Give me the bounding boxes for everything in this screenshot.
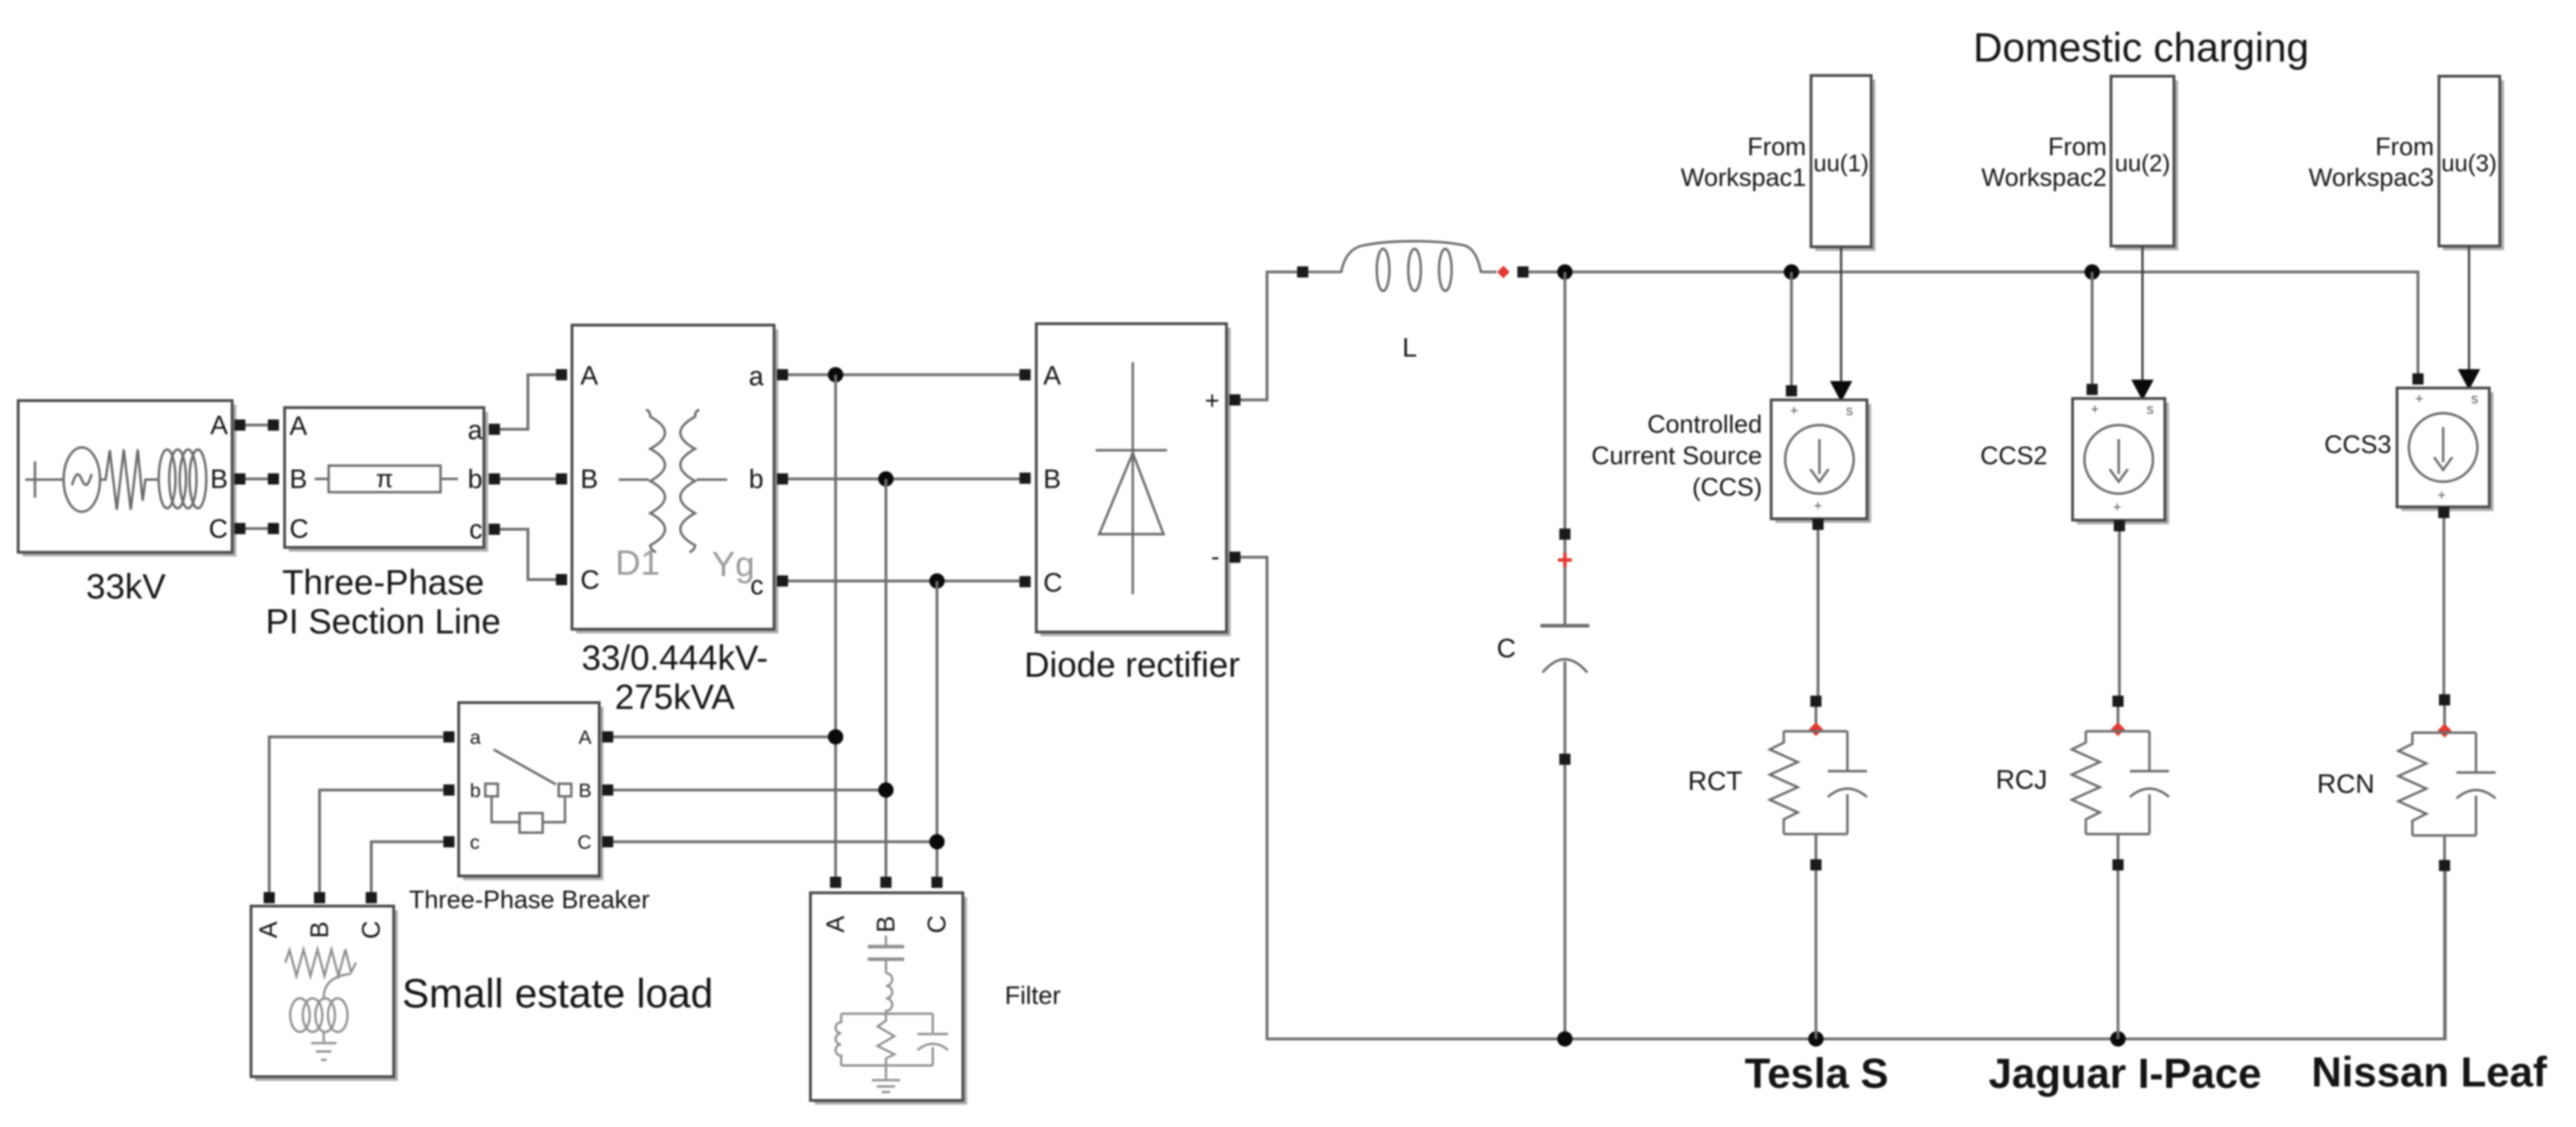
wire RCJ to ground bus <box>2117 870 2119 1039</box>
svg-text:Domestic charging: Domestic charging <box>1973 25 2309 71</box>
svg-text:C: C <box>209 515 228 544</box>
node junction a tap <box>828 367 843 382</box>
svg-text:C: C <box>922 915 951 933</box>
svg-text:B: B <box>210 465 228 494</box>
svg-text:Workspac1: Workspac1 <box>1681 163 1806 192</box>
port CCS3 plus input <box>2412 373 2424 385</box>
port RCT top <box>1810 696 1822 707</box>
node red marker after L <box>1497 266 1510 278</box>
svg-text:a: a <box>470 726 481 748</box>
wire breaker A output <box>613 735 836 738</box>
block Controlled Current Source CCS1 <box>1771 400 1871 523</box>
resistor-capacitor network RCT <box>1770 731 1867 859</box>
wire RCT to ground bus <box>1815 870 1817 1039</box>
wire DC plus bus <box>1529 272 2418 377</box>
block Filter <box>810 893 967 1105</box>
33kV icon resistor R <box>100 450 158 510</box>
svg-text:a: a <box>749 362 764 392</box>
svg-text:RCJ: RCJ <box>1996 766 2047 795</box>
resistor-capacitor network RCN <box>2398 733 2496 860</box>
ports transformer outputs a,b,c <box>777 369 788 587</box>
port capacitor C top <box>1559 529 1570 540</box>
svg-text:Three-Phase Breaker: Three-Phase Breaker <box>409 885 650 914</box>
label Controlled Current Source (CCS) <box>1591 410 1762 501</box>
svg-text:+: + <box>1790 403 1798 419</box>
arrowhead signal CCS1 <box>1830 381 1852 402</box>
filter icon ground <box>872 1065 900 1092</box>
port CCS3 minus output <box>2438 507 2449 518</box>
wire rectifier minus to ground bus <box>1240 557 2445 1039</box>
block From Workspace3 <box>2439 76 2504 250</box>
svg-text:+: + <box>2415 392 2424 407</box>
port inductor L right <box>1517 266 1529 278</box>
label 33/0.444kV-275kVA <box>582 638 768 717</box>
svg-text:uu(1): uu(1) <box>1813 150 1868 177</box>
port RCJ top <box>2112 696 2124 707</box>
resistor-capacitor network RCJ <box>2072 731 2169 859</box>
svg-text:B: B <box>578 780 592 801</box>
block Controlled Current Source CCS2 <box>2073 399 2169 524</box>
transformer winding primary <box>619 410 665 552</box>
33kV icon AC source circle <box>64 447 100 512</box>
svg-text:33/0.444kV-: 33/0.444kV- <box>582 638 768 677</box>
wire transformer c to rectifier C <box>788 580 1019 582</box>
arrowhead signal CCS3 <box>2458 369 2480 390</box>
svg-text:s: s <box>2147 402 2154 417</box>
block Small estate load (Three-Phase Series RLC Load) <box>251 906 398 1081</box>
inductor L coil <box>1308 241 1496 291</box>
wire signal From Workspace3 to CCS3 <box>2468 246 2470 369</box>
svg-text:Tesla S: Tesla S <box>1745 1050 1889 1097</box>
load icon inductor <box>290 998 348 1032</box>
node junction b tap <box>878 471 894 487</box>
label Three-Phase PI Section Line <box>266 563 501 641</box>
wire breaker a to load A <box>269 737 443 892</box>
node junction breaker A net <box>828 729 843 745</box>
source block 33kV (Three-Phase Source) <box>18 401 236 557</box>
svg-text:C: C <box>580 566 599 595</box>
svg-text:From: From <box>2048 132 2107 161</box>
label From Workspac3 <box>2309 132 2434 192</box>
load icon ground <box>311 1032 336 1060</box>
ports rectifier outputs plus,minus <box>1229 394 1240 563</box>
capacitor C symbol <box>1540 540 1589 754</box>
wire RCN port to network <box>2443 705 2446 733</box>
wire bus tap to CCS2 plus <box>2091 272 2094 387</box>
svg-text:B: B <box>1043 465 1061 494</box>
svg-text:C: C <box>1043 568 1062 598</box>
svg-text:c: c <box>750 571 764 601</box>
svg-text:s: s <box>1846 403 1853 419</box>
svg-text:b: b <box>468 465 482 494</box>
wire transformer a to rectifier A <box>788 373 1019 376</box>
port RCN bottom <box>2439 860 2450 871</box>
svg-text:PI Section Line: PI Section Line <box>266 602 501 641</box>
svg-text:+: + <box>2438 488 2446 503</box>
arrowhead signal CCS2 <box>2131 380 2154 401</box>
node red marker capacitor C top <box>1558 553 1572 567</box>
svg-text:B: B <box>305 921 334 938</box>
svg-text:CCS3: CCS3 <box>2324 430 2391 459</box>
svg-text:C: C <box>1497 634 1516 663</box>
svg-text:Yg: Yg <box>712 545 754 584</box>
port CCS1 plus input <box>1786 385 1797 396</box>
port RCT bottom <box>1810 859 1822 870</box>
wire PI a to transformer A <box>500 375 556 429</box>
port CCS2 plus input <box>2087 384 2098 395</box>
diode symbol inside rectifier <box>1096 362 1167 594</box>
wire RCN to ground bus corner <box>2443 871 2446 1039</box>
svg-text:Jaguar I-Pace: Jaguar I-Pace <box>1989 1050 2261 1097</box>
wire vertical net b to filter B <box>885 479 887 877</box>
svg-text:A: A <box>580 361 599 391</box>
wire 33kV A to PI A <box>245 424 268 426</box>
wire 33kV B to PI B <box>245 478 268 480</box>
svg-text:s: s <box>2471 392 2478 407</box>
ports transformer inputs A,B,C <box>556 369 567 585</box>
svg-text:From: From <box>1747 132 1806 161</box>
breaker switch symbol <box>485 749 571 833</box>
wire breaker B output <box>613 789 886 791</box>
wire 33kV C to PI C <box>245 527 268 530</box>
svg-text:A: A <box>578 726 592 748</box>
wire CCS2 to RCJ <box>2118 531 2121 696</box>
wire CCS1 to RCT <box>1817 530 1819 696</box>
ports filter inputs A,B,C <box>830 877 943 888</box>
block Three-Phase Breaker <box>459 703 603 880</box>
svg-text:a: a <box>468 416 483 445</box>
wire PI b to transformer B <box>500 478 556 480</box>
wire vertical net a to filter A <box>834 375 837 877</box>
svg-text:uu(2): uu(2) <box>2115 150 2170 177</box>
svg-text:+: + <box>1814 498 1822 514</box>
wire RCT port to network <box>1815 707 1817 731</box>
33kV icon inductor L <box>159 450 206 508</box>
svg-text:Workspac2: Workspac2 <box>1982 163 2107 192</box>
svg-text:From: From <box>2375 132 2434 161</box>
node junction CCS1 tap <box>1784 264 1799 280</box>
block Diode rectifier <box>1036 324 1231 636</box>
node junction CCS2 tap <box>2084 264 2100 280</box>
svg-text:Current Source: Current Source <box>1591 441 1762 470</box>
svg-text:Small estate load: Small estate load <box>402 971 713 1017</box>
svg-text:RCT: RCT <box>1688 767 1743 796</box>
node red marker RCN top <box>2438 724 2452 738</box>
svg-text:c: c <box>469 515 482 545</box>
svg-text:b: b <box>470 780 481 801</box>
port RCJ bottom <box>2112 859 2124 870</box>
node red marker RCT top <box>1809 722 1823 736</box>
node junction breaker C net <box>929 834 945 849</box>
svg-text:A: A <box>254 921 282 938</box>
svg-text:c: c <box>470 831 480 853</box>
filter icon series capacitor <box>868 935 904 973</box>
wire breaker C output <box>613 840 937 843</box>
wire CCS3 to RCN <box>2442 518 2445 694</box>
node junction ground bus at C <box>1557 1031 1573 1047</box>
svg-text:+: + <box>1205 386 1219 415</box>
block Three-Phase PI Section Line <box>285 408 488 552</box>
svg-text:Nissan Leaf: Nissan Leaf <box>2312 1049 2548 1096</box>
ports rectifier inputs A,B,C <box>1019 369 1031 587</box>
load icon connector <box>324 974 350 998</box>
svg-text:uu(3): uu(3) <box>2441 150 2496 177</box>
33kV icon ground bar <box>25 461 64 498</box>
ports breaker outputs A,B,C <box>602 731 613 847</box>
PI section icon box with pi symbol <box>315 464 458 493</box>
wire bus down to capacitor C <box>1564 272 1566 529</box>
wire capacitor C to ground bus <box>1564 765 1566 1039</box>
wire signal From Workspace1 to CCS1 <box>1840 247 1842 381</box>
filter icon parallel RLC <box>836 1014 948 1065</box>
port capacitor C bottom <box>1559 754 1570 765</box>
svg-text:RCN: RCN <box>2317 770 2375 799</box>
svg-text:Controlled: Controlled <box>1647 410 1762 438</box>
wire rectifier plus to inductor L <box>1240 272 1297 400</box>
block From Workspace1 <box>1811 76 1875 251</box>
label From Workspac1 <box>1681 132 1806 192</box>
wire breaker c to load C <box>371 842 443 892</box>
wire transformer b to rectifier B <box>788 478 1019 480</box>
svg-text:(CCS): (CCS) <box>1692 473 1762 501</box>
transformer winding secondary <box>680 410 727 552</box>
wire vertical net c to filter C <box>936 581 938 877</box>
svg-text:B: B <box>580 465 598 494</box>
port CCS2 minus output <box>2114 520 2125 531</box>
svg-text:Workspac3: Workspac3 <box>2309 163 2434 192</box>
node junction ground bus at RCJ <box>2110 1031 2126 1047</box>
svg-text:Filter: Filter <box>1005 981 1061 1010</box>
transformer block 33/0.444kV-275kVA <box>572 325 778 633</box>
wire RCJ port to network <box>2117 707 2119 731</box>
svg-text:C: C <box>578 831 592 853</box>
ports PI outputs a,b,c <box>489 424 500 535</box>
svg-text:b: b <box>749 465 764 494</box>
svg-text:A: A <box>210 411 229 440</box>
svg-text:275kVA: 275kVA <box>615 677 735 717</box>
block From Workspace2 <box>2111 76 2178 250</box>
label From Workspac2 <box>1982 132 2107 192</box>
node junction c tap <box>929 573 945 589</box>
node red marker RCJ top <box>2111 722 2125 736</box>
load icon resistor <box>285 949 356 976</box>
svg-text:B: B <box>289 465 307 494</box>
ports PI inputs A,B,C <box>268 419 279 534</box>
filter icon series inductor <box>886 973 892 1014</box>
svg-text:Three-Phase: Three-Phase <box>282 563 484 602</box>
ports 33kV outputs A,B,C <box>234 419 245 534</box>
block Controlled Current Source CCS3 <box>2397 388 2493 511</box>
svg-text:π: π <box>376 464 394 493</box>
wire bus tap to CCS1 plus <box>1790 272 1793 389</box>
svg-text:D1: D1 <box>615 543 660 582</box>
svg-text:C: C <box>289 515 308 544</box>
svg-text:A: A <box>821 916 850 933</box>
svg-text:+: + <box>2091 402 2099 417</box>
svg-text:A: A <box>1043 361 1061 391</box>
port RCN top <box>2439 694 2450 705</box>
node junction ground bus at RCT <box>1808 1031 1824 1047</box>
ports load inputs A,B,C <box>264 892 377 903</box>
node junction breaker B net <box>878 782 894 798</box>
svg-text:A: A <box>289 412 308 441</box>
wire breaker b to load B <box>320 790 443 892</box>
svg-text:-: - <box>1211 542 1219 570</box>
svg-text:B: B <box>871 916 900 933</box>
svg-text:L: L <box>1402 333 1417 363</box>
wire PI c to transformer C <box>500 529 556 580</box>
port inductor L left <box>1297 266 1308 278</box>
svg-text:Diode rectifier: Diode rectifier <box>1024 645 1240 684</box>
svg-text:C: C <box>357 921 385 939</box>
node junction C branch <box>1557 264 1573 280</box>
wire signal From Workspace2 to CCS2 <box>2141 246 2143 380</box>
svg-text:CCS2: CCS2 <box>1980 441 2047 470</box>
ports breaker inputs a,b,c <box>443 731 455 847</box>
svg-text:+: + <box>2113 500 2121 515</box>
svg-text:33kV: 33kV <box>86 567 166 606</box>
port CCS1 minus output <box>1812 519 1824 530</box>
